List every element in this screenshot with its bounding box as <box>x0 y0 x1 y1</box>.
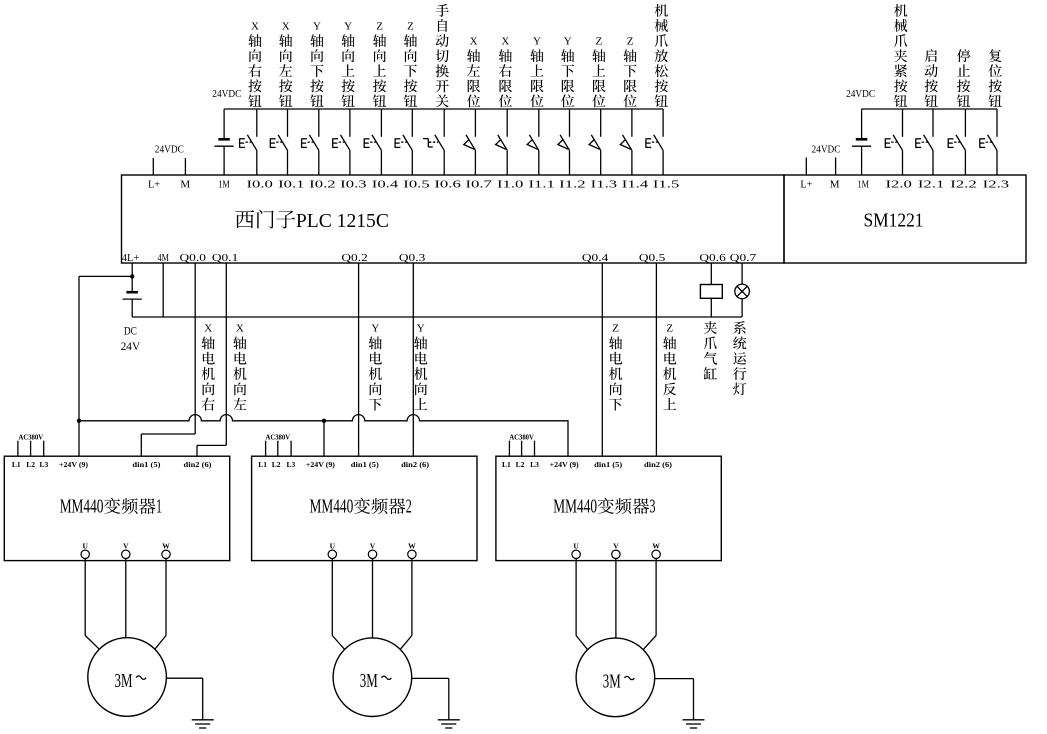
motor M3 3M~ <box>576 638 655 717</box>
svg-text:L+: L+ <box>148 179 160 191</box>
pushbutton SB6 Z轴向下按钮 I0.5 <box>395 109 412 175</box>
svg-text:PLC 1215C: PLC 1215C <box>296 210 389 232</box>
svg-text:24VDC: 24VDC <box>846 89 875 100</box>
label Z轴上限位 <box>592 36 605 108</box>
svg-text:Q0.6: Q0.6 <box>699 252 726 264</box>
wire 4M down <box>162 263 164 317</box>
svg-text:U: U <box>573 541 579 550</box>
svg-text:I1.0: I1.0 <box>497 179 524 191</box>
svg-text:Z: Z <box>407 21 414 33</box>
svg-text:Q0.4: Q0.4 <box>582 252 609 264</box>
svg-text:+24V (9): +24V (9) <box>306 460 336 469</box>
svg-text:Q0.2: Q0.2 <box>341 252 367 264</box>
label 启动按钮 <box>925 49 938 107</box>
svg-text:I1.1: I1.1 <box>529 179 555 191</box>
svg-text:AC380V: AC380V <box>266 432 291 441</box>
limit switch SQ5 Z轴上限位 I1.3 <box>589 109 601 175</box>
svg-text:I2.1: I2.1 <box>918 179 944 191</box>
svg-text:I0.6: I0.6 <box>434 179 461 191</box>
svg-text:Q0.5: Q0.5 <box>639 252 666 264</box>
pushbutton SB7 机械爪放松按钮 I1.5 <box>646 109 663 175</box>
PLC title 西门子PLC 1215C <box>235 210 389 232</box>
wire L1 L2 L3 stubs (MM440-1) <box>18 441 44 457</box>
svg-text:I0.3: I0.3 <box>340 179 367 191</box>
limit switch SQ2 X轴右限位 I1.0 <box>496 109 508 175</box>
limit switch SQ4 Y轴下限位 I1.2 <box>558 109 570 175</box>
svg-text:I0.1: I0.1 <box>278 179 304 191</box>
svg-text:+24V (9): +24V (9) <box>550 460 580 469</box>
motor M1 3M~ <box>88 638 167 717</box>
label X轴右限位 <box>499 36 512 108</box>
label X轴向左按钮 <box>279 21 292 107</box>
wire 24VDC input bus (PLC) <box>224 108 663 110</box>
inverter U3 title MM440变频器3 <box>553 497 655 518</box>
pushbutton SB2 X轴向左按钮 I0.1 <box>270 109 287 175</box>
svg-text:L1: L1 <box>258 460 267 469</box>
ground (motor M2) <box>438 720 460 728</box>
SM1221 top pin labels L+ M 1M I2.0-I2.3 <box>800 179 1009 191</box>
svg-text:24VDC: 24VDC <box>812 145 841 156</box>
svg-text:X: X <box>282 21 290 33</box>
pushbutton SB8 机械爪夹紧按钮 I2.0 <box>885 109 902 175</box>
svg-text:24VDC: 24VDC <box>155 145 184 156</box>
pushbutton SB5 Z轴向上按钮 I0.4 <box>364 109 381 175</box>
svg-text:I1.2: I1.2 <box>559 179 585 191</box>
label 停止按钮 <box>957 49 970 107</box>
wire motor M3 to ground <box>655 679 694 720</box>
PLC bottom pin labels 4L+ 4M Q0.0-Q0.7 <box>122 252 757 264</box>
svg-text:Z: Z <box>376 21 383 33</box>
label Z轴电机反上 <box>663 323 676 410</box>
pushbutton SB4 Y轴向上按钮 I0.3 <box>333 109 350 175</box>
svg-text:L3: L3 <box>287 460 296 469</box>
label 复位按钮 <box>988 49 1001 107</box>
svg-text:U: U <box>330 541 336 550</box>
wire junction to left rail <box>79 275 132 277</box>
svg-text:SM1221: SM1221 <box>864 209 924 231</box>
svg-text:L3: L3 <box>530 460 539 469</box>
label Y轴电机向下 <box>369 323 382 411</box>
svg-text:Z: Z <box>627 36 634 48</box>
pin labels L1 L2 L3 (MM440-3) <box>502 460 539 469</box>
junction dot left rail to +24V distribution <box>77 419 81 423</box>
wire motor M2 to ground <box>412 678 449 719</box>
label X轴向右按钮 <box>248 21 261 107</box>
label 机械爪夹紧按钮 <box>894 4 907 107</box>
svg-text:Q0.1: Q0.1 <box>212 252 238 264</box>
label 手自动切换开关 <box>436 4 449 107</box>
wire L+ M supply stubs (PLC) <box>153 158 185 175</box>
label Z轴下限位 <box>623 36 636 108</box>
svg-text:W: W <box>408 541 416 550</box>
svg-text:I1.4: I1.4 <box>622 179 649 191</box>
svg-text:I2.2: I2.2 <box>950 179 976 191</box>
wire Q0.5 output Z轴电机反上 <box>655 263 657 456</box>
pushbutton SB3 Y轴向下按钮 I0.2 <box>302 109 319 175</box>
wire cylinder to M rail <box>710 298 712 317</box>
pushbutton SB9 启动按钮 I2.1 <box>916 109 933 175</box>
label X轴左限位 <box>467 36 480 108</box>
svg-text:I2.3: I2.3 <box>983 179 1010 191</box>
wire L+ M supply stubs (SM1221) <box>806 158 835 176</box>
svg-text:din1 (5): din1 (5) <box>132 460 161 469</box>
svg-text:3: 3 <box>650 497 656 518</box>
svg-text:AC380V: AC380V <box>509 432 534 441</box>
svg-text:Z: Z <box>596 36 603 48</box>
wire Q0.7 to lamp <box>741 263 743 285</box>
svg-text:din1 (5): din1 (5) <box>351 460 380 469</box>
label DC 24V <box>121 326 141 354</box>
svg-text:3M: 3M <box>603 671 621 692</box>
battery B3 DC 24V <box>123 276 142 317</box>
ground (motor M3) <box>683 720 705 728</box>
label Y轴向下按钮 <box>310 21 323 107</box>
wire L1 L2 L3 stubs (MM440-3) <box>509 441 534 457</box>
svg-text:I0.0: I0.0 <box>247 179 274 191</box>
svg-text:4L+: 4L+ <box>122 252 139 264</box>
limit switch SQ3 Y轴上限位 I1.1 <box>527 109 539 175</box>
svg-text:Y: Y <box>313 21 321 33</box>
wire M return rail <box>132 316 742 318</box>
junction dot rail to MM440-2 +24V <box>322 419 326 423</box>
svg-text:3M: 3M <box>360 671 378 692</box>
wire Q0.4 output Z轴电机向下 <box>601 263 603 456</box>
svg-text:L+: L+ <box>800 179 812 191</box>
wire motor M1 to ground <box>166 678 202 719</box>
wire rail to MM440-2 +24V pin <box>323 421 325 456</box>
svg-text:Q0.0: Q0.0 <box>180 252 207 264</box>
svg-text:MM440: MM440 <box>310 497 354 518</box>
selector switch SA1 手自动切换开关 I0.6 <box>423 109 444 175</box>
label Z轴向下按钮 <box>404 21 417 107</box>
wire Q0.0 output X轴电机向右 <box>141 263 195 456</box>
svg-text:V: V <box>123 541 129 550</box>
inverter U3 MM440变频器3 box <box>496 456 721 560</box>
svg-text:1M: 1M <box>857 179 869 191</box>
terminals U V W (MM440-1) <box>81 541 170 558</box>
inverter U2 MM440变频器2 box <box>252 456 477 560</box>
svg-text:L3: L3 <box>40 460 49 469</box>
svg-text:I0.4: I0.4 <box>372 179 399 191</box>
svg-text:X: X <box>470 36 478 48</box>
pin labels L1 L2 L3 (MM440-2) <box>258 460 295 469</box>
solenoid YV 夹爪气缸 <box>700 285 722 299</box>
svg-text:I2.0: I2.0 <box>886 179 913 191</box>
label Y轴下限位 <box>561 36 574 108</box>
label X轴电机向左 <box>233 323 246 410</box>
svg-text:AC380V: AC380V <box>19 432 44 441</box>
svg-text:L2: L2 <box>26 460 35 469</box>
svg-text:I0.5: I0.5 <box>403 179 430 191</box>
svg-text:1: 1 <box>156 497 162 518</box>
svg-text:DC: DC <box>124 326 137 338</box>
wire U V W to motor M1 <box>85 559 166 650</box>
svg-text:din2 (6): din2 (6) <box>184 460 213 469</box>
svg-text:Y: Y <box>533 36 541 48</box>
svg-text:Z: Z <box>666 323 673 335</box>
svg-text:Q0.3: Q0.3 <box>399 252 426 264</box>
svg-text:L1: L1 <box>12 460 21 469</box>
svg-text:W: W <box>652 541 660 550</box>
svg-text:X: X <box>204 323 212 335</box>
svg-text:M: M <box>830 179 840 191</box>
pushbutton SB1 X轴向右按钮 I0.0 <box>240 109 257 175</box>
wire 4L+ to junction <box>131 263 133 276</box>
wire 24VDC input bus (SM1221) <box>862 108 997 110</box>
svg-text:Y: Y <box>344 21 352 33</box>
svg-text:+24V (9): +24V (9) <box>59 460 89 469</box>
svg-text:X: X <box>501 36 509 48</box>
svg-text:4M: 4M <box>158 252 170 264</box>
wire Q0.3 output Y轴电机向上 <box>412 263 414 456</box>
inverter U1 title MM440变频器1 <box>60 497 162 518</box>
svg-text:U: U <box>82 541 88 550</box>
wire +24V distribution rail with wire hops <box>79 415 568 457</box>
pushbutton SB11 复位按钮 I2.3 <box>980 109 997 175</box>
inverter U1 MM440变频器1 box <box>4 456 229 560</box>
svg-text:I0.7: I0.7 <box>466 179 493 191</box>
junction dot 4L+ rail <box>130 274 134 278</box>
label 系统运行灯 <box>733 321 746 395</box>
svg-text:Y: Y <box>371 323 379 335</box>
label Y轴上限位 <box>530 36 543 108</box>
svg-text:V: V <box>613 541 619 550</box>
svg-text:X: X <box>236 323 244 335</box>
label Z轴电机向下 <box>609 323 622 411</box>
svg-text:1M: 1M <box>218 179 230 191</box>
terminals U V W (MM440-3) <box>572 541 660 558</box>
svg-text:24VDC: 24VDC <box>212 89 241 100</box>
svg-text:L2: L2 <box>516 460 525 469</box>
wire Q0.1 output X轴电机向左 <box>197 263 226 456</box>
wire L1 L2 L3 stubs (MM440-2) <box>266 441 292 457</box>
svg-text:din2 (6): din2 (6) <box>401 460 430 469</box>
label Y轴向上按钮 <box>341 21 354 107</box>
svg-text:Y: Y <box>417 323 425 335</box>
wire lamp to M rail <box>741 298 743 317</box>
svg-text:24V: 24V <box>121 341 141 353</box>
limit switch SQ1 X轴左限位 I0.7 <box>464 109 476 175</box>
battery B1 24VDC (1M PLC) <box>214 109 233 175</box>
svg-text:Y: Y <box>564 36 572 48</box>
battery B2 24VDC (1M SM1221) <box>852 109 871 175</box>
label Z轴向上按钮 <box>373 21 386 107</box>
svg-text:L2: L2 <box>272 460 281 469</box>
pin labels L1 L2 L3 (MM440-1) <box>12 460 49 469</box>
limit switch SQ6 Z轴下限位 I1.4 <box>620 109 632 175</box>
svg-text:3M: 3M <box>115 671 133 692</box>
svg-text:I1.5: I1.5 <box>653 179 680 191</box>
svg-text:X: X <box>251 21 259 33</box>
ground (motor M1) <box>192 720 214 728</box>
svg-text:I0.2: I0.2 <box>309 179 335 191</box>
svg-text:2: 2 <box>406 497 412 518</box>
label Y轴电机向上 <box>414 323 427 410</box>
svg-text:din2 (6): din2 (6) <box>644 460 673 469</box>
inverter U2 title MM440变频器2 <box>310 497 412 518</box>
pushbutton SB10 停止按钮 I2.2 <box>948 109 965 175</box>
PLC top pin labels L+ M 1M I0.0-I1.5 <box>148 179 680 191</box>
svg-text:Q0.7: Q0.7 <box>730 252 757 264</box>
svg-text:Z: Z <box>612 323 619 335</box>
svg-text:MM440: MM440 <box>553 497 597 518</box>
svg-text:L1: L1 <box>502 460 511 469</box>
wire U V W to motor M3 <box>576 559 656 650</box>
wire U V W to motor M2 <box>332 559 412 650</box>
terminals U V W (MM440-2) <box>328 541 416 558</box>
label 机械爪放松按钮 <box>655 4 668 107</box>
wire Q0.6 to cylinder <box>710 263 712 285</box>
svg-text:V: V <box>370 541 376 550</box>
svg-text:M: M <box>180 179 190 191</box>
label X轴电机向右 <box>202 323 215 411</box>
svg-text:W: W <box>162 541 170 550</box>
lamp HL 系统运行灯 <box>735 284 750 299</box>
svg-text:I1.3: I1.3 <box>591 179 618 191</box>
label 夹爪气缸 <box>704 321 717 379</box>
svg-text:din1 (5): din1 (5) <box>594 460 623 469</box>
SM1221 expansion module box <box>784 175 1026 263</box>
svg-text:MM440: MM440 <box>60 497 104 518</box>
wire left +24V rail vertical <box>78 276 80 456</box>
motor M2 3M~ <box>333 638 412 717</box>
wire Q0.2 output Y轴电机向下 <box>358 263 360 456</box>
PLC 西门子PLC 1215C main box <box>122 175 785 263</box>
